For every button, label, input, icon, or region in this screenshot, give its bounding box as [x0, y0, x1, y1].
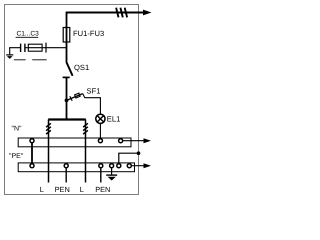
wire: PEN right drop [100, 168, 102, 183]
wire: N exit [123, 140, 145, 142]
svg-text:SF1: SF1 [87, 86, 101, 95]
svg-text:FU1-FU3: FU1-FU3 [73, 29, 104, 38]
wire: PE exit [132, 165, 145, 167]
earth terminal on PE bar [110, 164, 114, 168]
wire: left feeder L [48, 120, 50, 183]
3-phase slash marks [116, 8, 127, 18]
wire: earth drop [111, 168, 113, 175]
ground symbol [6, 55, 13, 59]
label underline [16, 36, 39, 38]
wire: right feeder L [85, 120, 87, 183]
svg-text:"PE": "PE" [9, 153, 24, 160]
arrow PE exit [144, 163, 152, 168]
PE exit terminal [127, 164, 131, 168]
bond junction dot on frame [137, 151, 141, 155]
wire: top supply line [67, 12, 145, 14]
wire: capacitor branch [25, 47, 67, 49]
wire: capacitor to ground [10, 48, 21, 55]
N-PE bond wire [31, 143, 33, 164]
N bus bar [18, 138, 131, 147]
slash marks left feeder [46, 123, 51, 134]
wire: SF1 to lamp [83, 94, 101, 114]
N exit terminal [119, 139, 123, 143]
QS1 bottom contact [63, 76, 70, 78]
disconnector QS1 blade [67, 62, 73, 76]
slash marks right feeder [83, 123, 88, 134]
lamp EL1 [96, 114, 105, 123]
svg-text:QS1: QS1 [74, 63, 89, 72]
svg-text:L: L [80, 185, 84, 194]
circuit breaker SF1 blade [67, 94, 83, 101]
arrow N exit [144, 138, 152, 143]
group dashed line [14, 59, 47, 61]
SF1 contact cross tick [70, 96, 72, 101]
wire: main vertical [66, 12, 68, 63]
wire: PEN left drop [65, 168, 67, 183]
wire: lamp to N bar [99, 123, 101, 138]
lamp return terminal on N bar [98, 139, 102, 143]
arrow to supply [143, 10, 152, 16]
svg-text:PEN: PEN [95, 185, 110, 194]
capacitor fuse box [28, 44, 42, 51]
enclosure bond terminal on PE bar [117, 164, 121, 168]
PE bus bar [18, 163, 134, 172]
enclosure frame [5, 5, 139, 195]
branch count tick [45, 43, 47, 53]
capacitor C1...C3 plates [21, 44, 25, 52]
svg-text:EL1: EL1 [107, 115, 121, 124]
fuse FU1-FU3 [63, 28, 70, 43]
N-PE bond terminal on PE bar [30, 164, 34, 168]
svg-text:C1...C3: C1...C3 [17, 31, 40, 38]
N-PE bond terminal on N bar [30, 139, 34, 143]
wire: T-bar split [48, 118, 86, 120]
SF1 breaker square [75, 93, 81, 98]
earth symbol [106, 175, 117, 180]
wire: enclosure bond [119, 153, 139, 163]
PEN left terminal on PE bar [64, 164, 68, 168]
junction dot SF1 tap [65, 99, 69, 103]
svg-text:PEN: PEN [55, 185, 70, 194]
wire: QS1 to SF1 [66, 77, 68, 119]
svg-text:L: L [40, 185, 44, 194]
svg-text:"N": "N" [12, 126, 23, 133]
PEN right terminal on PE bar [99, 164, 103, 168]
